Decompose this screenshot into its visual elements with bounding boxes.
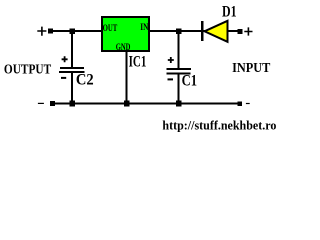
wire bottom ground rail: [53, 102, 240, 104]
polarity minus C2: [61, 77, 66, 79]
plus sign input terminal: [244, 27, 252, 35]
svg-text:C2: C2: [76, 72, 94, 89]
terminal output negative: [50, 101, 55, 106]
wire GND lead: [125, 51, 127, 103]
wire C1 bottom lead: [177, 75, 179, 104]
plus sign output terminal: [37, 27, 46, 36]
polarity plus C2: [62, 56, 68, 62]
svg-text:OUT: OUT: [103, 24, 118, 34]
wire C2 top lead: [71, 31, 73, 68]
svg-text:IN: IN: [140, 23, 148, 33]
svg-text:C1: C1: [182, 72, 197, 89]
svg-text:GND: GND: [116, 43, 131, 53]
capacitor C2 top plate: [60, 67, 84, 69]
svg-text:http://stuff.nekhbet.ro: http://stuff.nekhbet.ro: [162, 118, 276, 133]
terminal input negative: [237, 101, 242, 106]
wire C2 bottom lead: [71, 73, 73, 103]
minus sign input terminal: [246, 103, 250, 105]
capacitor C1 top plate: [167, 68, 192, 70]
svg-text:D1: D1: [222, 4, 237, 21]
minus sign output terminal: [38, 102, 44, 104]
node junction GND bottom: [124, 101, 130, 107]
node junction C2 top: [70, 29, 75, 34]
regulator IC1 body: [102, 17, 149, 51]
svg-text:OUTPUT: OUTPUT: [4, 63, 52, 78]
wire top-left positive output rail: [52, 30, 102, 32]
node junction C1 top: [176, 29, 181, 34]
wire C1 top lead: [177, 31, 179, 69]
wire top-right input rail: [149, 30, 240, 32]
node junction C1 bottom: [176, 101, 182, 107]
svg-text:INPUT: INPUT: [232, 61, 271, 76]
diode D1 cathode bar: [201, 21, 204, 41]
diode D1 body: [205, 21, 228, 42]
polarity plus C1: [168, 57, 174, 63]
capacitor C2 bottom plate: [59, 71, 85, 73]
capacitor C1 bottom plate: [167, 73, 191, 75]
node junction C2 bottom: [69, 101, 75, 107]
terminal output positive: [48, 29, 53, 34]
polarity minus C1: [168, 78, 174, 80]
svg-text:IC1: IC1: [129, 53, 147, 70]
terminal input positive: [237, 29, 242, 34]
